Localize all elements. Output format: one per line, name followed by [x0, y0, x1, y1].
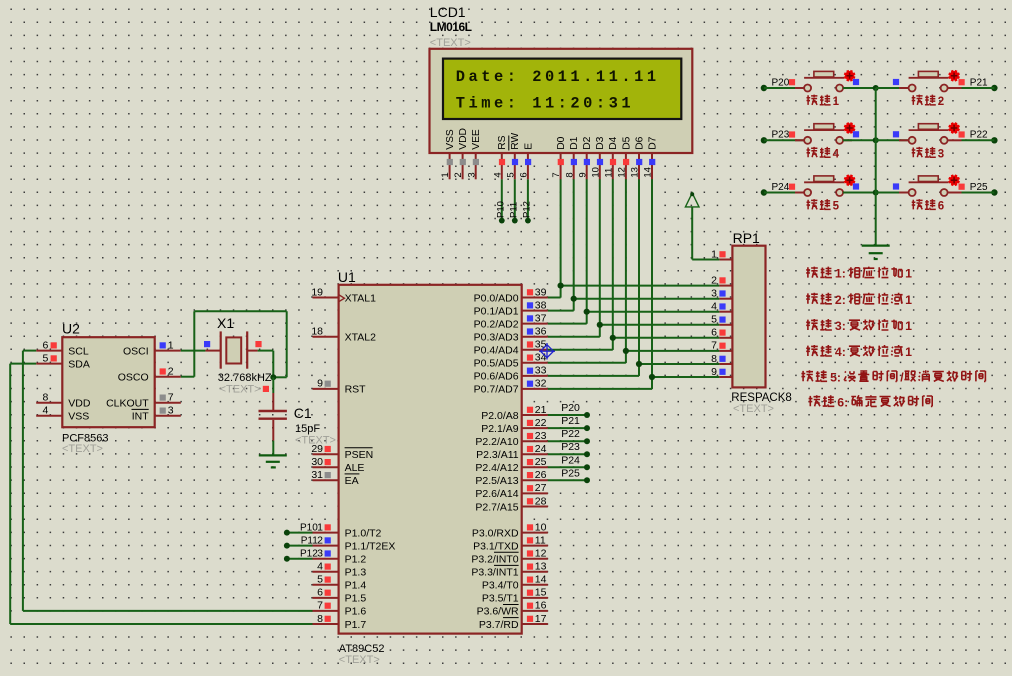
svg-text:P12: P12 — [300, 549, 318, 560]
svg-text:P11: P11 — [508, 202, 519, 218]
svg-text:XTAL1: XTAL1 — [345, 292, 376, 304]
node net P23 terminal — [761, 130, 795, 144]
U1 pin 39 (P0.0/AD0) right — [474, 286, 548, 304]
LCD pin 8 (D1) — [564, 136, 580, 179]
cursor crosshair marker — [539, 343, 555, 360]
svg-text:P25: P25 — [561, 467, 580, 479]
button 4 state square — [853, 131, 859, 137]
LCD pin 10 (D3) — [590, 136, 606, 179]
wire P1.1 to net P11 — [284, 543, 313, 549]
node net label P25 — [561, 467, 580, 479]
svg-text:15: 15 — [535, 587, 547, 599]
node net label P23 — [561, 441, 580, 453]
wire P0.7 to RP1 pin 9 (net D7) — [548, 377, 720, 389]
svg-text:9: 9 — [711, 366, 717, 378]
C1 value label 15pF — [295, 423, 320, 435]
U1 pin 6 (P1.5) left — [313, 587, 367, 605]
svg-text:SCL: SCL — [68, 345, 89, 357]
node net label P10 at U1 — [300, 522, 318, 533]
svg-text:P10: P10 — [300, 522, 318, 533]
svg-text:1: 1 — [168, 339, 174, 351]
svg-text:P24: P24 — [772, 182, 790, 193]
C1 pin state square — [263, 386, 269, 392]
U1 pin 26 (P2.5/A13) right — [475, 469, 547, 487]
U1 value label AT89C52 — [339, 643, 385, 655]
U1 pin 30 (ALE) left — [311, 456, 364, 474]
svg-text:P23: P23 — [561, 441, 580, 453]
svg-text:P3.1/TXD: P3.1/TXD — [473, 540, 519, 552]
svg-text:37: 37 — [535, 312, 547, 324]
U1 pin 37 (P0.2/AD2) right — [474, 312, 548, 330]
svg-text:P2.3/A11: P2.3/A11 — [476, 449, 519, 461]
svg-text:RST: RST — [345, 384, 367, 396]
wire button 1 to junction — [843, 87, 876, 89]
svg-text:39: 39 — [535, 286, 547, 298]
RP1 pin 8 — [711, 353, 732, 365]
svg-text:XTAL2: XTAL2 — [345, 332, 376, 344]
LCD LM016L value label — [430, 20, 472, 34]
wire power to RP1 pin 1 — [692, 207, 719, 260]
X1 value label 32.768kHZ — [218, 372, 272, 384]
svg-text:P3.5/T1: P3.5/T1 — [482, 593, 519, 605]
svg-text:7: 7 — [168, 392, 174, 404]
svg-text:5:: 5: — [830, 370, 841, 384]
wire LCD pin 12 (D5) vertical to P0.5 bus row — [625, 179, 627, 351]
svg-text:11: 11 — [535, 534, 546, 546]
svg-text:P12: P12 — [522, 201, 533, 218]
U1 pin 1 (P1.0/T2) left — [313, 521, 382, 539]
U1 pin 11 (P3.1/TXD) right — [473, 534, 548, 552]
LCD text placeholder label — [430, 37, 471, 49]
LCD screen — [443, 59, 681, 119]
svg-text:P3.6/WR: P3.6/WR — [477, 606, 519, 618]
wire C1 to ground — [272, 441, 274, 456]
svg-text:8: 8 — [42, 392, 48, 404]
svg-text:P1.2: P1.2 — [345, 554, 367, 566]
svg-text:27: 27 — [535, 482, 547, 494]
wire P0.0 to RP1 pin 2 (net D0) — [548, 286, 720, 298]
svg-text:P25: P25 — [970, 182, 988, 193]
RP1 pin 6 — [711, 327, 732, 339]
svg-text:D6: D6 — [634, 136, 645, 149]
svg-text:6: 6 — [938, 201, 944, 213]
node net label P12 at U1 — [300, 549, 318, 560]
svg-text:PSEN: PSEN — [345, 449, 374, 461]
svg-text:VSS: VSS — [68, 411, 89, 423]
svg-text:32: 32 — [535, 378, 547, 390]
U2 value label PCF8563 — [62, 433, 108, 445]
power symbol at RP1 pin 1 — [685, 192, 699, 207]
svg-text:P1.0/T2: P1.0/T2 — [345, 527, 382, 539]
svg-text:P2.5/A13: P2.5/A13 — [475, 475, 518, 487]
U1 pin 38 (P0.1/AD1) right — [474, 299, 548, 317]
wire P1.0 to net P10 — [284, 530, 313, 536]
svg-text:5: 5 — [317, 574, 323, 586]
svg-text:P1.6: P1.6 — [345, 606, 367, 618]
svg-text:1: 1 — [905, 267, 912, 281]
U1 pin 5 (P1.4) left — [313, 574, 367, 592]
svg-text:5: 5 — [505, 172, 516, 177]
svg-text:3: 3 — [317, 548, 323, 560]
U2 pin 7 (CLKOUT) right — [106, 392, 181, 410]
svg-text:D3: D3 — [595, 136, 606, 149]
LCD pin 3 (VEE) — [466, 129, 482, 179]
svg-text:10: 10 — [590, 167, 601, 178]
svg-text:5: 5 — [711, 314, 717, 326]
wire U2 OSCI to X1 left — [181, 350, 206, 352]
svg-text:VDD: VDD — [68, 398, 91, 410]
svg-text:P20: P20 — [561, 402, 580, 414]
wire P2.0 to net P20 — [548, 412, 590, 418]
wire LCD pin 11 (D4) vertical to P0.4 bus row — [612, 179, 614, 337]
junction node D7 — [649, 374, 655, 380]
svg-text:6: 6 — [42, 339, 48, 351]
svg-text:RS: RS — [497, 135, 508, 149]
LCD pin 12 (D5) — [617, 136, 633, 179]
wire LCD pin 8 (D1) vertical to P0.1 bus row — [573, 179, 575, 298]
svg-text:3:: 3: — [835, 319, 846, 333]
svg-text:9: 9 — [577, 172, 588, 177]
wire LCD pin 5 to net P11 — [514, 179, 516, 220]
svg-text:6: 6 — [711, 327, 717, 339]
svg-text:2: 2 — [453, 172, 464, 177]
push button 按键3 right — [909, 123, 960, 144]
node net label P20 — [561, 402, 580, 414]
U1 pin 23 (P2.2/A10) right — [475, 430, 547, 448]
svg-text:24: 24 — [535, 443, 547, 455]
push button 按键5 left — [804, 175, 855, 196]
svg-text:11: 11 — [603, 168, 614, 178]
U1 pin 28 (P2.7/A15) right — [475, 495, 547, 513]
svg-text:1: 1 — [905, 293, 912, 307]
svg-text:P2.0/A8: P2.0/A8 — [481, 410, 519, 422]
svg-text:D4: D4 — [608, 136, 619, 149]
svg-text:31: 31 — [311, 469, 323, 481]
svg-text:VDD: VDD — [458, 128, 469, 150]
U1 pin 8 (P1.7) left — [313, 613, 367, 631]
svg-text:P3.7/RD: P3.7/RD — [479, 619, 519, 631]
svg-text:1: 1 — [905, 345, 912, 359]
wire button 6 to P25 — [948, 192, 994, 194]
svg-text:<TEXT>: <TEXT> — [295, 435, 336, 447]
wire LCD pin 7 (D0) vertical to P0.0 bus row — [560, 179, 562, 285]
button 5 state square — [853, 183, 859, 189]
button caption 按键5 — [807, 199, 840, 212]
wire junction to button 2 — [876, 87, 909, 89]
U1 pin 21 (P2.0/A8) right — [481, 404, 548, 422]
wire button common column to ground — [875, 88, 877, 246]
svg-text:P2.4/A12: P2.4/A12 — [475, 462, 518, 474]
LCD pin 9 (D2) — [577, 136, 593, 179]
LCD pin 11 (D4) — [603, 136, 619, 179]
LCD pin 14 (D7) — [643, 136, 659, 179]
button 1 state square — [853, 79, 859, 85]
svg-text:2:: 2: — [835, 293, 846, 307]
svg-text:VEE: VEE — [471, 129, 482, 150]
U2 pin 3 (INT) right — [132, 405, 181, 423]
svg-text:14: 14 — [535, 574, 547, 586]
svg-text:5: 5 — [833, 201, 840, 213]
node net label P12 at LCD — [522, 201, 533, 223]
U1 pin 7 (P1.6) left — [313, 600, 367, 618]
node net label P24 — [561, 454, 580, 466]
svg-text:8: 8 — [317, 613, 323, 625]
svg-text:Time: 11:20:31: Time: 11:20:31 — [456, 95, 634, 113]
svg-text:P0.7/AD7: P0.7/AD7 — [474, 384, 519, 396]
push button 按键2 right — [909, 70, 960, 91]
wire P0.1 to RP1 pin 3 (net D1) — [548, 299, 720, 311]
svg-text:7: 7 — [711, 340, 717, 352]
RTC U2 PCF8563 body — [62, 337, 154, 427]
wire X1 right to node A — [258, 351, 274, 378]
svg-text:<TEXT>: <TEXT> — [220, 384, 261, 396]
LCD pin 4 (RS) — [492, 135, 508, 179]
svg-text:RP1: RP1 — [733, 230, 760, 246]
svg-text:2: 2 — [317, 534, 323, 546]
svg-text:D2: D2 — [582, 136, 593, 149]
svg-text:P3.0/RXD: P3.0/RXD — [472, 527, 519, 539]
U1 pin 31 (EA) left — [311, 469, 359, 487]
svg-text:P0.1/AD1: P0.1/AD1 — [474, 305, 519, 317]
annotation text 按键1 note — [806, 267, 912, 281]
svg-text:P1.7: P1.7 — [345, 619, 367, 631]
wire P2.3 to net P23 — [548, 451, 590, 457]
push button 按键6 right — [909, 175, 960, 196]
svg-text:P0.3/AD3: P0.3/AD3 — [474, 332, 519, 344]
crystal X1 body — [221, 331, 248, 368]
node net P25 terminal — [959, 182, 998, 196]
wire P24 to button 5 — [764, 192, 804, 194]
svg-text:OSCI: OSCI — [123, 345, 149, 357]
U2 text placeholder — [62, 443, 103, 455]
svg-text:SDA: SDA — [68, 358, 90, 370]
junction node D3 — [597, 322, 603, 328]
wire net SCL: U2 SCL to U1 P1.6 — [23, 351, 313, 611]
svg-text:LCD1: LCD1 — [430, 4, 466, 20]
U2 pin 8 (VDD) left — [36, 392, 91, 410]
wire P2.1 to net P21 — [548, 425, 590, 431]
svg-text:1:: 1: — [835, 267, 846, 281]
wire P2.4 to net P24 — [548, 464, 590, 470]
svg-text:P3.2/INT0: P3.2/INT0 — [471, 554, 518, 566]
svg-text:5: 5 — [42, 352, 48, 364]
button caption 按键3 — [912, 147, 945, 160]
junction node row 1 — [873, 85, 879, 91]
U1 pin 10 (P3.0/RXD) right — [472, 521, 548, 539]
node net label P22 — [561, 428, 580, 440]
button caption 按键1 — [807, 95, 840, 108]
U1 text placeholder — [339, 654, 380, 666]
svg-text:P0.0/AD0: P0.0/AD0 — [474, 292, 519, 304]
RP1 pin 1 — [711, 248, 732, 260]
svg-text:X1: X1 — [217, 315, 234, 331]
U1 reference label — [338, 269, 356, 285]
svg-text:15pF: 15pF — [295, 423, 320, 435]
wire junction to button 6 — [876, 192, 909, 194]
svg-text:VSS: VSS — [445, 129, 456, 150]
LCD pin 5 (RW) — [505, 133, 521, 180]
LCD pin 1 (VSS) — [440, 129, 456, 179]
U2 pin 5 (SDA) left — [36, 352, 90, 370]
LCD pin 6 (E) — [519, 143, 535, 180]
svg-text:D1: D1 — [569, 136, 580, 149]
X1 reference label — [217, 315, 234, 331]
C1 text placeholder — [295, 435, 336, 447]
push button 按键1 left — [804, 70, 855, 91]
svg-text:14: 14 — [643, 167, 654, 178]
U1 pin 9 (RST) left — [313, 378, 367, 396]
svg-text:4: 4 — [317, 561, 323, 573]
svg-text:P0.4/AD4: P0.4/AD4 — [474, 345, 519, 357]
RP1 pin 7 — [711, 340, 732, 352]
U2 reference label — [62, 321, 80, 337]
U1 pin 3 (P1.2) left — [313, 548, 367, 566]
svg-text:36: 36 — [535, 326, 547, 338]
svg-text:P2.2/A10: P2.2/A10 — [475, 436, 518, 448]
X1 text placeholder — [220, 384, 261, 396]
svg-text:CLKOUT: CLKOUT — [106, 398, 149, 410]
node net P20 terminal — [761, 77, 795, 91]
LCD pin 2 (VDD) — [453, 128, 469, 179]
U1 pin 13 (P3.3/INT1) right — [471, 561, 547, 579]
U2 pin 1 (OSCI) right — [123, 339, 181, 357]
ground symbol below C1 — [259, 455, 287, 467]
svg-text:4: 4 — [492, 172, 503, 177]
svg-text:Date: 2011.11.11: Date: 2011.11.11 — [456, 68, 660, 86]
svg-text:P21: P21 — [970, 77, 988, 88]
X1 pin right — [247, 341, 261, 351]
svg-text:ALE: ALE — [345, 462, 365, 474]
U1 pin 22 (P2.1/A9) right — [481, 417, 548, 435]
annotation text 按键2 note — [806, 293, 912, 307]
node net label P10 at LCD — [495, 201, 506, 223]
RP1 pin 5 — [711, 314, 732, 326]
LCD display LCD1 body — [430, 49, 693, 153]
svg-text:4: 4 — [711, 301, 717, 313]
svg-text:D5: D5 — [621, 136, 632, 149]
svg-text:P2.6/A14: P2.6/A14 — [475, 488, 518, 500]
U1 pin 16 (P3.6/WR) right — [477, 600, 548, 618]
svg-text:2: 2 — [168, 366, 174, 378]
svg-text:P3.4/T0: P3.4/T0 — [482, 580, 519, 592]
svg-text:EA: EA — [345, 475, 359, 487]
svg-text:13: 13 — [630, 167, 641, 178]
wire P0.4 to RP1 pin 6 (net D4) — [548, 338, 720, 350]
svg-text:P10: P10 — [495, 201, 506, 218]
RP1 value label RESPACK8 — [731, 392, 792, 404]
button 2 state square — [893, 79, 899, 85]
capacitor C1 — [259, 393, 287, 441]
annotation text 按键4 note — [806, 345, 912, 359]
svg-text:P2.7/A15: P2.7/A15 — [475, 501, 518, 513]
annotation text 按键5 note — [801, 370, 985, 384]
U1 pin 19 (XTAL1) left — [311, 286, 376, 304]
wire LCD pin 14 (D7) vertical to P0.7 bus row — [651, 179, 653, 377]
U1 pin 32 (P0.7/AD7) right — [474, 378, 548, 396]
svg-text:P1.1/T2EX: P1.1/T2EX — [345, 540, 396, 552]
resistor pack RP1 body — [732, 246, 765, 388]
svg-text:D0: D0 — [556, 136, 567, 149]
svg-text:1: 1 — [833, 96, 840, 108]
svg-text:<TEXT>: <TEXT> — [733, 403, 774, 415]
U1 pin 25 (P2.4/A12) right — [475, 456, 547, 474]
wire button 5 to junction — [843, 192, 876, 194]
svg-text:10: 10 — [535, 521, 547, 533]
junction node A (X1/OSCO/C1) — [270, 374, 276, 380]
svg-text:INT: INT — [132, 411, 150, 423]
wire button 4 to junction — [843, 139, 876, 141]
LCD pin 13 (D6) — [630, 136, 646, 179]
svg-text:1: 1 — [317, 521, 323, 533]
svg-text:3: 3 — [938, 148, 944, 160]
junction node D4 — [610, 335, 616, 341]
svg-text:17: 17 — [535, 613, 547, 625]
svg-text:2: 2 — [711, 274, 717, 286]
svg-text:28: 28 — [535, 495, 547, 507]
svg-text:6: 6 — [317, 587, 323, 599]
button caption 按键2 — [912, 95, 945, 108]
svg-text:E: E — [523, 143, 534, 150]
wire P1.2 to net P12 — [284, 556, 313, 562]
RP1 pin 9 — [711, 366, 732, 378]
svg-text:P3.3/INT1: P3.3/INT1 — [471, 567, 518, 579]
RP1 text placeholder — [733, 403, 774, 415]
svg-text:D7: D7 — [647, 136, 658, 149]
LCD screen text line 2: Time: 11:20:31 — [456, 95, 634, 113]
node net P24 terminal — [761, 182, 795, 196]
push button 按键4 left — [804, 123, 855, 144]
svg-text:P1.3: P1.3 — [345, 567, 367, 579]
U2 pin 6 (SCL) left — [36, 339, 89, 357]
svg-text:38: 38 — [535, 299, 547, 311]
svg-text:8: 8 — [711, 353, 717, 365]
node net P22 terminal — [959, 130, 998, 144]
junction node D5 — [623, 348, 629, 354]
C1 reference label — [294, 405, 312, 421]
svg-text:RW: RW — [510, 133, 521, 150]
svg-text:19: 19 — [311, 286, 323, 298]
svg-text:26: 26 — [535, 469, 547, 481]
U1 pin 36 (P0.3/AD3) right — [474, 326, 548, 344]
svg-text:1: 1 — [440, 172, 451, 177]
svg-text:OSCO: OSCO — [118, 372, 149, 384]
wire node A to C1 — [272, 377, 274, 393]
svg-text:12: 12 — [617, 167, 628, 178]
svg-text:18: 18 — [311, 326, 323, 338]
U1 pin 33 (P0.6/AD6) right — [474, 365, 548, 383]
svg-text:1: 1 — [905, 319, 912, 333]
svg-text:<TEXT>: <TEXT> — [430, 37, 471, 49]
svg-text:32.768kHZ: 32.768kHZ — [218, 372, 272, 384]
svg-text:8: 8 — [564, 172, 575, 177]
LCD screen text line 1: Date: 2011.11.11 — [456, 68, 660, 86]
microcontroller U1 AT89C52 body — [339, 285, 522, 634]
RP1 pin 2 — [711, 274, 732, 286]
wire P0.3 to RP1 pin 5 (net D3) — [548, 325, 720, 337]
svg-text:3: 3 — [168, 405, 174, 417]
junction node D2 — [584, 309, 590, 315]
U2 pin 2 (OSCO) right — [118, 366, 181, 384]
svg-text:P2.1/A9: P2.1/A9 — [481, 423, 519, 435]
svg-text:9: 9 — [317, 378, 323, 390]
LCD LCD1 reference label — [430, 4, 466, 20]
junction node row 5 — [873, 190, 879, 196]
U1 pin 24 (P2.3/A11) right — [476, 443, 548, 461]
wire P23 to button 4 — [764, 139, 804, 141]
wire U2 OSCO loop over X1 to C1 node — [181, 311, 287, 377]
U1 pin 18 (XTAL2) left — [311, 326, 376, 344]
node net label P11 at U1 — [301, 535, 318, 546]
